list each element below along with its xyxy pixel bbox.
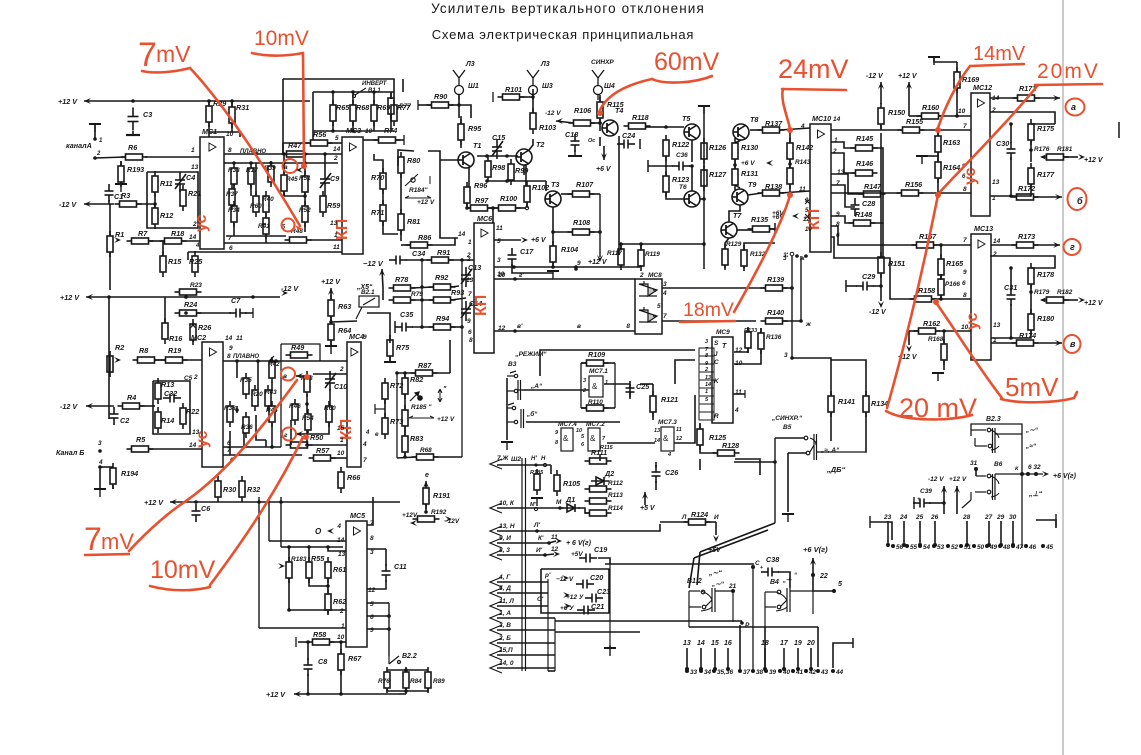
arrow R183 <box>278 563 285 569</box>
wire <box>312 92 314 140</box>
junction <box>256 359 260 363</box>
mc5 left vertical 1 <box>258 497 260 628</box>
wire long bottom link 2 <box>555 631 640 633</box>
wire <box>309 578 328 586</box>
svg-text:21: 21 <box>728 583 737 590</box>
wire <box>433 372 450 374</box>
red dot 10mV <box>301 163 307 169</box>
wire R1 up <box>109 204 111 236</box>
capacitor C29 <box>856 282 874 291</box>
red circle b <box>282 219 295 232</box>
svg-text:+12 V: +12 V <box>898 73 918 80</box>
junction <box>932 544 936 548</box>
resistor R112 <box>585 486 612 492</box>
node N' <box>534 463 537 466</box>
diode Д1 <box>562 504 580 512</box>
arrow out a <box>1053 95 1060 101</box>
svg-text:R135: R135 <box>751 215 769 224</box>
junction <box>1009 266 1013 270</box>
junction <box>809 667 813 671</box>
wire <box>787 453 789 512</box>
svg-text:R118: R118 <box>632 113 649 122</box>
svg-text:12: 12 <box>676 436 682 442</box>
wire <box>324 154 326 171</box>
wire <box>990 184 1031 196</box>
wire y236 <box>226 235 286 237</box>
svg-text:в: в <box>1070 339 1076 349</box>
resistor R81 <box>398 209 404 235</box>
wire <box>990 97 1017 99</box>
junction <box>282 161 286 165</box>
resistor R78 <box>389 285 416 291</box>
wire R102 bottom <box>526 202 528 208</box>
resistor R15 <box>160 251 166 277</box>
resistor R91 <box>427 257 454 263</box>
wire <box>943 486 945 514</box>
red underline 18mV <box>680 321 735 322</box>
resistor R124 <box>684 519 711 525</box>
capacitor C31 <box>1007 288 1016 306</box>
red underline 60mV <box>652 76 712 83</box>
wire <box>406 259 430 261</box>
svg-text:2: 2 <box>992 251 997 258</box>
junction <box>804 254 808 258</box>
svg-text:R55: R55 <box>311 554 325 563</box>
svg-text:Усилитель вертикального откл: Усилитель вертикального отклонения <box>431 1 705 16</box>
wire <box>459 105 471 118</box>
wire g arrow <box>296 433 307 435</box>
arrow +6Vg2 <box>810 558 816 565</box>
wire <box>405 688 407 694</box>
wire <box>520 96 533 98</box>
wire kanalB <box>149 448 202 450</box>
red dot v <box>304 374 310 380</box>
resistor <box>269 401 275 427</box>
wire <box>373 153 375 155</box>
svg-text:R77: R77 <box>399 103 411 110</box>
svg-text:6: 6 <box>962 280 966 287</box>
svg-text:11, Л: 11, Л <box>499 598 514 605</box>
junction <box>420 258 424 262</box>
svg-text:5: 5 <box>370 601 374 608</box>
junction <box>558 506 562 510</box>
svg-text:Д2: Д2 <box>604 469 614 478</box>
wire R80 up <box>398 150 414 166</box>
svg-text:R109: R109 <box>588 350 605 359</box>
svg-text:7: 7 <box>963 237 967 244</box>
transistor T9 <box>732 189 748 205</box>
resistor R19 <box>161 357 188 363</box>
svg-text:13, Н: 13, Н <box>499 523 515 530</box>
svg-text:C32: C32 <box>164 389 177 398</box>
MC9 input cell <box>699 396 714 404</box>
svg-text:R67: R67 <box>348 654 362 663</box>
svg-text:C24: C24 <box>622 131 635 140</box>
svg-text:C: C <box>714 359 719 366</box>
svg-text:30: 30 <box>1009 514 1017 521</box>
svg-text:34: 34 <box>704 669 712 676</box>
svg-text:R62: R62 <box>333 597 346 606</box>
svg-text:47: 47 <box>1015 544 1024 551</box>
wire B5 left vertical <box>774 438 776 523</box>
junction <box>879 284 883 288</box>
svg-text:R26: R26 <box>198 323 212 332</box>
wire pin7 up <box>367 497 373 525</box>
R184 arrows <box>405 176 431 198</box>
resistor R32 <box>239 476 245 502</box>
svg-text:И: И <box>714 514 719 521</box>
wire <box>929 502 944 504</box>
junction <box>598 121 602 125</box>
svg-text:R147: R147 <box>864 182 882 191</box>
resistor R72 <box>382 378 388 404</box>
junction <box>512 265 516 269</box>
svg-text:R66: R66 <box>347 473 361 482</box>
junction <box>955 114 959 118</box>
svg-text:R184": R184" <box>409 187 429 194</box>
svg-text:“: “ <box>794 573 797 579</box>
svg-text:1: 1 <box>834 137 838 144</box>
junction <box>535 529 539 533</box>
tick4 <box>375 408 385 410</box>
resistor R98 <box>485 156 491 182</box>
connector arrow 5, Д <box>490 588 502 598</box>
svg-text:R91: R91 <box>437 248 450 257</box>
transistor T2 <box>516 149 532 165</box>
wire <box>224 242 289 244</box>
arrow -12V d <box>878 301 884 308</box>
junction <box>763 667 767 671</box>
svg-text:J: J <box>714 351 718 358</box>
switch B2.2 <box>389 656 401 664</box>
resistor R92 <box>429 284 456 290</box>
wire <box>84 100 310 102</box>
wire <box>937 130 939 136</box>
svg-text:R176: R176 <box>1034 146 1050 153</box>
resistor R162 <box>914 328 941 334</box>
wire +12V rail mid <box>86 296 280 298</box>
cable bus line 2 <box>525 458 527 671</box>
wire <box>760 328 762 333</box>
svg-text:Ш1: Ш1 <box>468 83 479 90</box>
wire R104 bottom <box>552 262 554 267</box>
resistor R175 <box>1028 119 1034 145</box>
svg-text:29: 29 <box>996 514 1005 521</box>
connector arrow 9, И <box>490 538 502 548</box>
wire T3 to R107 <box>561 193 573 195</box>
svg-text:1: 1 <box>705 389 708 395</box>
wire MC7 row link <box>607 442 655 444</box>
junction <box>738 669 742 673</box>
wire <box>640 383 653 385</box>
svg-text:T8: T8 <box>750 115 758 124</box>
ground mark input <box>89 124 101 132</box>
resistor R151 <box>878 252 884 278</box>
resistor R105 <box>554 470 560 496</box>
resistor R109 <box>582 360 609 366</box>
wire <box>328 142 342 144</box>
resistor R75 <box>387 335 393 361</box>
svg-text:R178: R178 <box>1037 270 1054 279</box>
switch B2.1 <box>356 296 379 319</box>
diode Д2 <box>591 477 609 485</box>
junction <box>184 295 188 299</box>
wire <box>382 269 383 288</box>
svg-text:R107: R107 <box>576 180 594 189</box>
svg-text:1: 1 <box>341 623 345 630</box>
resistor R16 <box>162 318 168 344</box>
wire <box>648 165 673 167</box>
svg-text:3: 3 <box>98 440 102 447</box>
transistor T8 <box>733 124 749 140</box>
capacitor C21 <box>577 606 595 615</box>
resistor R107 <box>568 191 595 197</box>
switch B2.3 lower <box>962 474 1043 508</box>
op-amp MC2 <box>202 342 223 467</box>
op-amp MC10 <box>810 124 831 252</box>
ground T5 rail <box>698 106 710 114</box>
resistor R157 <box>912 242 939 248</box>
ground R168 <box>932 373 944 381</box>
svg-text:37: 37 <box>743 669 751 676</box>
svg-text:R42: R42 <box>268 361 280 368</box>
svg-text:В6: В6 <box>994 461 1003 468</box>
arrow <box>294 691 301 697</box>
junction <box>460 325 464 329</box>
wire row 13, Н <box>497 530 526 532</box>
arrow out b <box>1055 194 1062 200</box>
op-amp MC4 <box>347 342 361 467</box>
svg-text:1, А: 1, А <box>499 610 511 617</box>
wire <box>271 422 273 447</box>
arrow +6V c <box>792 213 799 219</box>
wire <box>591 122 600 124</box>
wire <box>737 229 752 231</box>
arrow +6vg3 <box>1042 471 1049 477</box>
svg-text:C19: C19 <box>594 545 607 554</box>
resistor R66 <box>338 467 344 493</box>
vertical x462 <box>461 260 463 457</box>
red leader 10mV low <box>210 437 303 585</box>
tick C29 <box>845 280 847 292</box>
wire v-prime rail <box>494 330 635 332</box>
resistor R147 <box>859 191 886 197</box>
svg-text:8: 8 <box>963 186 967 193</box>
wire B5 to R134 <box>865 412 866 452</box>
wire MC7.3 to MC9 <box>674 395 695 443</box>
wire <box>689 165 692 167</box>
resistor <box>227 401 233 427</box>
svg-text:+12 V: +12 V <box>949 476 967 483</box>
svg-text:Канал Б: Канал Б <box>56 448 84 457</box>
svg-text:20: 20 <box>806 640 815 647</box>
resistor R65 <box>330 100 336 126</box>
capacitor C23 <box>585 594 603 603</box>
svg-text:Л': Л' <box>533 522 540 529</box>
wire <box>783 320 801 322</box>
wire <box>747 328 749 332</box>
svg-text:R70: R70 <box>371 173 384 182</box>
svg-text:4: 4 <box>362 441 367 448</box>
svg-text:R7: R7 <box>138 229 148 238</box>
svg-text:MC2: MC2 <box>191 333 206 342</box>
wire invert block left <box>282 79 284 154</box>
junction <box>891 544 895 548</box>
antenna input L3 #2 <box>527 70 539 100</box>
resistor R134 <box>863 391 869 417</box>
arrow r192r <box>445 516 452 522</box>
wire <box>883 244 916 246</box>
resistor R70 <box>380 168 386 194</box>
junction <box>1011 544 1015 548</box>
capacitor C18 <box>571 134 580 152</box>
junction <box>305 402 309 406</box>
wire <box>589 193 600 195</box>
wire <box>330 288 332 300</box>
wire bottom rail mc5 <box>294 693 399 695</box>
svg-text:R37: R37 <box>226 191 238 198</box>
svg-text:R98: R98 <box>492 163 505 172</box>
junction <box>551 265 555 269</box>
capacitor C35 <box>395 323 413 332</box>
svg-text:R57: R57 <box>316 446 330 455</box>
wire <box>164 297 166 323</box>
resistor R160 <box>917 113 944 119</box>
MC9 input cell <box>699 364 714 372</box>
mark slash <box>269 356 274 361</box>
wire <box>182 240 200 242</box>
tick6 <box>417 100 419 110</box>
junction <box>905 544 909 548</box>
resistor R135 <box>748 226 775 232</box>
resistor R68 <box>350 100 356 126</box>
wire <box>665 156 667 176</box>
resistor R69 <box>371 100 377 126</box>
resistor <box>638 245 644 271</box>
svg-text:R: R <box>714 413 719 420</box>
MC8 inner lower <box>639 310 657 322</box>
wire <box>209 131 240 133</box>
svg-text:6: 6 <box>229 245 233 252</box>
svg-text:р': р' <box>544 572 551 579</box>
tick11 <box>913 497 915 509</box>
red underline 20mV low <box>886 411 972 419</box>
wire <box>581 407 586 409</box>
wire <box>831 223 883 245</box>
junction <box>598 121 602 125</box>
svg-text:R121: R121 <box>661 395 678 404</box>
wire <box>309 422 329 434</box>
svg-text:R185: R185 <box>530 470 544 476</box>
svg-text:R5: R5 <box>136 435 146 444</box>
wire <box>880 124 882 130</box>
resistor R18 <box>160 238 187 244</box>
junction <box>270 359 274 363</box>
wire <box>229 431 231 455</box>
MC9 input cell <box>699 348 714 356</box>
resistor <box>231 201 237 227</box>
resistor R77b <box>388 93 394 119</box>
svg-text:24mV: 24mV <box>778 54 849 84</box>
svg-text:R123: R123 <box>672 175 689 184</box>
capacitor <box>913 499 931 508</box>
wire R51 top <box>304 154 306 176</box>
svg-text:27: 27 <box>984 514 993 521</box>
wire <box>734 165 736 169</box>
antenna input SYNC <box>592 70 604 100</box>
arrow R26 <box>190 322 196 329</box>
svg-text:+6 V: +6 V <box>531 237 547 244</box>
wire MC9 row feed <box>540 350 695 376</box>
arrow -12V x5 <box>379 269 385 276</box>
wire R108 right <box>589 231 600 233</box>
svg-text:&: & <box>592 382 598 391</box>
arrow <box>170 499 177 505</box>
resistor R21 <box>180 185 186 211</box>
wire <box>192 340 194 342</box>
junction <box>1041 544 1045 548</box>
svg-text:13: 13 <box>683 640 691 647</box>
wire <box>880 297 882 301</box>
resistor R96 <box>464 182 470 208</box>
svg-text:+12 V: +12 V <box>58 97 78 106</box>
resistor R178 <box>1028 263 1034 289</box>
svg-text:7: 7 <box>228 235 232 242</box>
red dot 18mV <box>787 192 793 198</box>
wire row ext y668 <box>526 667 555 669</box>
wire <box>734 159 736 165</box>
svg-text:каналА: каналА <box>66 141 92 150</box>
svg-text:в': в' <box>517 323 523 330</box>
svg-text:-12 V: -12 V <box>281 284 299 293</box>
tick12 <box>869 516 871 528</box>
resistor R121 <box>650 391 656 417</box>
svg-text:R45: R45 <box>286 176 298 183</box>
wire R98 R99 bottoms <box>487 180 546 182</box>
ground R64 <box>325 346 337 354</box>
page edge line <box>1062 0 1064 755</box>
resistor R111 <box>585 458 612 464</box>
wire bracket right <box>833 643 853 668</box>
wire pin 18 <box>764 648 766 669</box>
red circle out b <box>1068 188 1087 210</box>
wire <box>831 185 855 207</box>
junction <box>395 371 399 375</box>
red dot 14mV <box>935 127 941 133</box>
wire bracket r <box>1036 520 1056 528</box>
transistor T4 <box>602 120 618 136</box>
svg-text:Н: Н <box>541 456 546 462</box>
wire B3 frame <box>506 378 508 440</box>
wire <box>396 139 404 141</box>
svg-text:14: 14 <box>833 116 841 123</box>
junction <box>751 565 755 569</box>
resistor R131 <box>732 164 738 190</box>
wire <box>330 316 332 324</box>
MC9 input cell <box>699 388 714 396</box>
wire <box>515 207 525 209</box>
transistor T1 <box>458 152 474 168</box>
wire <box>937 178 939 193</box>
trimmer capacitor C14 <box>461 301 472 321</box>
wire <box>778 572 790 588</box>
wire <box>283 143 311 154</box>
vertical x422 <box>421 260 423 327</box>
svg-text:R175: R175 <box>1037 124 1055 133</box>
svg-text:R92: R92 <box>435 273 448 282</box>
resistor R102 <box>524 181 530 207</box>
wire pin 14 <box>700 648 702 669</box>
